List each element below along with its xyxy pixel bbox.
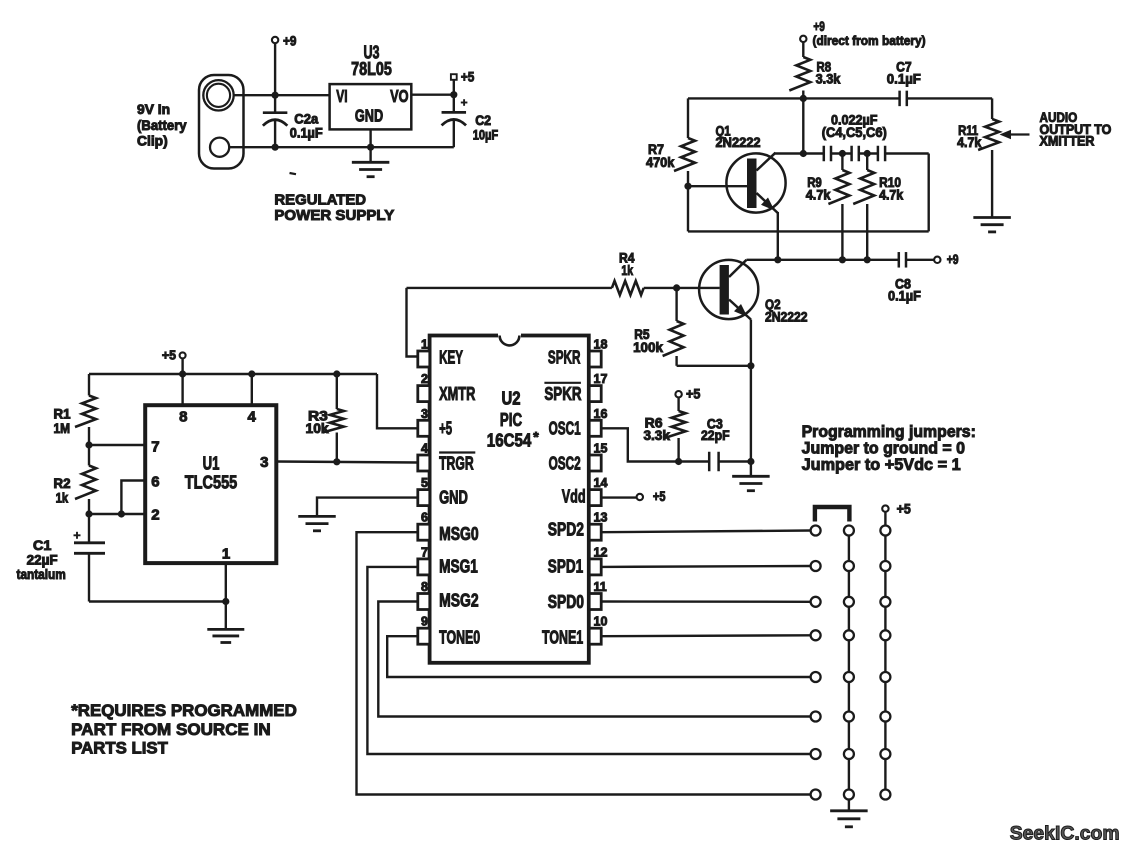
U3 pin labels VI VO GND (336, 86, 408, 125)
U1 pin 4 number (248, 408, 257, 425)
jumper pad row 2 ground (844, 561, 854, 571)
svg-text:C2: C2 (475, 113, 491, 128)
svg-text:12: 12 (594, 545, 608, 559)
label REGULATED POWER SUPPLY (274, 191, 394, 224)
U2 body (430, 333, 589, 663)
ground jumper column (830, 811, 868, 827)
wire feedback right edge (928, 154, 930, 232)
svg-text:VO: VO (390, 86, 408, 106)
U2 pin 7 box (418, 559, 430, 575)
U2 pin 14 box (589, 490, 601, 506)
label AUDIO OUTPUT TO XMITTER (1040, 110, 1112, 148)
svg-text:Jumper to +5Vdc = 1: Jumper to +5Vdc = 1 (802, 456, 961, 474)
wire SPD0 (601, 600, 810, 603)
svg-text:18: 18 (594, 338, 608, 352)
svg-text:10k: 10k (306, 421, 330, 436)
wire Q2 collector rail (747, 259, 900, 261)
U1 body (145, 405, 276, 563)
buffer section Q2 (407, 251, 959, 476)
svg-text:0.1µF: 0.1µF (887, 72, 921, 87)
U2 pin 3 box (418, 420, 430, 436)
resistor R1 (75, 374, 96, 445)
label R9 4.7k (806, 175, 831, 202)
svg-text:SPD1: SPD1 (548, 557, 583, 577)
node +5 rail pin4 (248, 370, 255, 377)
capacitor C2a (263, 95, 288, 147)
svg-text:MSG1: MSG1 (439, 557, 478, 577)
U2 pin 11 number (594, 580, 607, 594)
svg-text:9: 9 (421, 615, 428, 629)
label C8 0.1uF (888, 276, 921, 303)
U2 pin 16 label OSC1 (549, 418, 581, 438)
terminal +9 output (934, 252, 959, 267)
wire U2 pin5 GND (317, 498, 418, 517)
svg-text:2: 2 (151, 507, 159, 524)
U2 pin 6 label MSG0 (439, 524, 479, 544)
transistor Q1 2N2222 (688, 153, 786, 213)
wire rail to U2 pin 3 (377, 374, 418, 428)
wire U3 GND pin (369, 129, 371, 162)
U2 pin 12 number (594, 545, 608, 559)
ground Q2 emitter C3 (732, 476, 770, 490)
node Q2 base junction (673, 284, 680, 291)
svg-text:13: 13 (594, 511, 608, 525)
svg-text:OSC2: OSC2 (549, 454, 581, 474)
svg-text:6: 6 (421, 511, 428, 525)
U1 pin 6 number (151, 474, 159, 491)
wire C8 to +9 terminal (906, 259, 934, 261)
jumper pad row 4 +5 (880, 630, 890, 640)
svg-text:6: 6 (151, 474, 159, 491)
node Q1 emitter to rail (774, 256, 781, 263)
label R11 4.7k (957, 123, 982, 150)
U2 pin 18 box (589, 351, 601, 367)
jumper pad row 1 ground (844, 526, 854, 536)
svg-text:1M: 1M (54, 421, 71, 436)
svg-text:U2: U2 (502, 389, 521, 409)
U2 pin 16 number (594, 407, 608, 421)
svg-text:XMITTER: XMITTER (1040, 133, 1095, 148)
svg-text:R1: R1 (54, 406, 72, 421)
U2 pin 14 number (594, 476, 608, 490)
U2 pin 9 box (418, 628, 430, 644)
node R9 to rail (839, 256, 846, 263)
node R1 R2 pin7 junction (85, 441, 92, 448)
wire C5-C6 (859, 152, 878, 154)
wire Q1 collector rail (775, 152, 824, 154)
svg-text:17: 17 (594, 372, 608, 386)
label C7 0.1uF (887, 59, 921, 86)
jumper pad row 7 +5 (880, 749, 890, 759)
svg-text:0.1µF: 0.1µF (888, 289, 921, 304)
jumper pad row 6 ground (844, 712, 854, 722)
C1 plus sign (74, 532, 81, 539)
svg-text:1k: 1k (56, 491, 69, 506)
label 9V In (Battery Clip) (137, 102, 187, 149)
U2 pin 2 number (421, 372, 428, 386)
resistor R2 (75, 445, 96, 514)
wire MSG2 wrap (378, 602, 810, 717)
oscillator section Q1 (646, 19, 1111, 260)
oscillator RC section (601, 386, 769, 490)
wire MSG0 wrap (357, 532, 811, 794)
svg-text:16: 16 (594, 407, 608, 421)
svg-text:POWER SUPPLY: POWER SUPPLY (274, 207, 394, 224)
U2 pin 2 label XMTR (439, 384, 475, 404)
label R1 1M (54, 406, 72, 436)
U2 pin 4 number (421, 442, 428, 456)
wire +5 rail (89, 373, 377, 375)
label U3 78L05 (351, 43, 392, 80)
capacitor C4 (824, 146, 831, 162)
capacitor C7 (900, 91, 907, 107)
wire OSC1 to RC row (601, 428, 709, 461)
svg-text:5: 5 (421, 476, 428, 490)
jumper pad row 4 ground (844, 630, 854, 640)
U2 pin 15 number (594, 442, 608, 456)
wire U1 out to TRGR (276, 462, 418, 463)
wire ground column (848, 526, 850, 811)
U2 pin 1 number (421, 338, 428, 352)
U2 pin 9 label TONE0 (439, 628, 480, 648)
svg-text:+5: +5 (653, 489, 666, 504)
node C4 C5 junction (839, 150, 846, 157)
U2 pin 2 box (418, 386, 430, 402)
jumper pad row 2 signal (811, 561, 821, 571)
svg-text:REGULATED: REGULATED (274, 191, 366, 208)
wire Vdd to +5 (601, 496, 636, 498)
U2 pin 8 number (421, 580, 428, 594)
U2 pin 10 box (589, 628, 601, 644)
U2 pin 10 number (594, 615, 608, 629)
U2 pin 16 box (589, 420, 601, 436)
jumper pad row 8 signal (811, 790, 821, 800)
watermark SeekIC.com (1010, 822, 1120, 844)
U2 pin 7 label MSG1 (439, 557, 478, 577)
label R10 4.7k (879, 175, 904, 202)
U2 pin 15 box (589, 455, 601, 471)
label C2 10uF (473, 113, 499, 142)
U2 pin 18 label SPKR (548, 347, 581, 367)
wire pin 6 tie (121, 481, 145, 515)
node emitter R5 junction (747, 362, 754, 369)
svg-text:TONE0: TONE0 (439, 628, 480, 648)
wire Q2 emitter to ground (750, 320, 752, 476)
battery clip positive terminal (203, 80, 233, 110)
U1 pin 3 number (260, 454, 268, 471)
capacitor C8 (899, 252, 906, 267)
U1 pin 1 number (222, 546, 230, 563)
ground U1 (207, 629, 244, 642)
U1 pin 8 number (179, 408, 187, 425)
svg-text:15: 15 (594, 442, 608, 456)
svg-text:9V In: 9V In (137, 102, 170, 117)
svg-text:KEY: KEY (439, 347, 463, 367)
wire U3 VO to +5 node (411, 93, 454, 95)
svg-text:+9: +9 (947, 252, 959, 267)
svg-text:C1: C1 (33, 538, 52, 553)
svg-text:*REQUIRES PROGRAMMED: *REQUIRES PROGRAMMED (71, 701, 297, 720)
terminal +5 jumper column (882, 501, 911, 516)
svg-text:4.7k: 4.7k (879, 188, 904, 203)
svg-text:Programming jumpers:: Programming jumpers: (802, 423, 976, 441)
jumper pad row 1 signal (811, 526, 821, 536)
label R5 100k (633, 327, 663, 355)
wire SPD2 (601, 531, 810, 533)
jumper pad row 1 +5 (880, 526, 890, 536)
wire ground rail battery minus to C2 (229, 146, 454, 148)
wire R8 node down to caps (802, 98, 804, 153)
U2 pin 17 number (594, 372, 608, 386)
wire +9 to input rail (274, 43, 276, 95)
jumper pad row 3 ground (844, 597, 854, 607)
node R3 top (333, 370, 340, 377)
svg-text:+5: +5 (686, 386, 701, 401)
jumper pad row 7 ground (844, 749, 854, 759)
wire +5 to rail (181, 358, 183, 374)
svg-text:tantalum: tantalum (17, 567, 66, 582)
wire oscillator left edge top (687, 98, 689, 138)
svg-text:+5: +5 (897, 501, 912, 516)
node R3 bottom (333, 458, 340, 465)
svg-text:0.1µF: 0.1µF (290, 126, 323, 141)
capacitor C6 (878, 146, 885, 162)
jumper pad row 7 signal (811, 749, 821, 759)
terminal +5 square (451, 70, 475, 85)
U2 pin 7 number (421, 545, 428, 559)
label R2 1k (54, 476, 71, 506)
wire C7 to R11 (907, 98, 992, 119)
svg-text:XMTR: XMTR (439, 384, 475, 404)
svg-text:10µF: 10µF (473, 127, 499, 142)
label R3 10k (306, 408, 330, 436)
svg-text:4.7k: 4.7k (806, 188, 831, 203)
svg-text:GND: GND (439, 488, 468, 508)
U2 pin 5 label GND (439, 488, 468, 508)
resistor R10 (853, 154, 874, 260)
wire pin 8 drop (181, 374, 183, 405)
jumper pad row 4 signal (811, 630, 821, 640)
U2 pin 17 box (589, 386, 601, 402)
wire battery plus to U3 VI (234, 94, 330, 96)
svg-text:22µF: 22µF (27, 553, 58, 568)
U1 pin 2 number (151, 507, 159, 524)
svg-text:PARTS LIST: PARTS LIST (71, 739, 168, 758)
svg-text:1: 1 (222, 546, 230, 563)
wire pin 2 (89, 513, 145, 515)
jumper pad row 6 +5 (880, 712, 890, 722)
jumper pad row 8 +5 (880, 790, 890, 800)
svg-text:4.7k: 4.7k (957, 135, 982, 150)
U2 pin 15 label OSC2 (549, 454, 581, 474)
U2 pin 3 label +5 (439, 418, 452, 438)
jumper pad row 3 signal (811, 597, 821, 607)
jumper bracket installed (815, 507, 850, 522)
node pin2 pin6 tie (118, 510, 125, 517)
wire TONE1 (601, 634, 810, 637)
terminal +9 top left (272, 34, 297, 49)
label R7 470k (646, 142, 675, 170)
label Q2 2N2222 (765, 297, 808, 325)
label C1 22uF tantalum (17, 538, 66, 582)
svg-text:TRGR: TRGR (439, 454, 474, 474)
wire base node to feedback rail (687, 186, 689, 231)
resistor R9 (828, 154, 849, 260)
terminal +5 Vdd (637, 489, 666, 504)
label U2 PIC 16C54* (487, 389, 539, 451)
label Programming jumpers text (802, 423, 976, 474)
svg-text:2: 2 (421, 372, 428, 386)
node C2a bottom junction (272, 144, 279, 151)
U2 pin 4 label TRGR (439, 453, 475, 474)
svg-text:SPKR: SPKR (548, 347, 581, 367)
node Q1 base junction (684, 183, 691, 190)
U2 pin 17 label SPKR (544, 383, 581, 404)
U2 pin 18 number (594, 338, 608, 352)
svg-text:+5: +5 (162, 348, 176, 363)
svg-text:Clip): Clip) (137, 134, 168, 149)
microcontroller U2 PIC 16C54 (418, 333, 608, 663)
svg-text:R2: R2 (54, 476, 71, 491)
U2 pin 13 box (589, 524, 601, 540)
node caps row left junction (800, 150, 807, 157)
battery clip negative terminal (210, 138, 229, 157)
U2 pin 9 number (421, 615, 428, 629)
node R10 to rail (864, 256, 871, 263)
node C5 C6 junction (864, 150, 871, 157)
svg-text:10: 10 (594, 615, 608, 629)
wire R4 to KEY pin (407, 288, 418, 357)
note requires programmed part (71, 701, 297, 758)
U2 pin 1 label KEY (439, 347, 463, 367)
svg-text:SPKR: SPKR (544, 384, 581, 404)
U2 pin 12 label SPD1 (548, 557, 583, 577)
R11 wiper arrow (1000, 130, 1030, 139)
U2 pin 13 label SPD2 (548, 520, 584, 540)
capacitor C2 polarized (442, 95, 467, 148)
jumper pad row 2 +5 (880, 561, 890, 571)
label C2a 0.1uF (290, 111, 323, 140)
svg-text:PART FROM SOURCE IN: PART FROM SOURCE IN (71, 720, 271, 739)
svg-text:SPD0: SPD0 (548, 592, 584, 612)
resistor R8 (789, 57, 810, 98)
label 0.022uF (C4,C5,C6) (822, 113, 887, 140)
svg-text:14: 14 (594, 476, 608, 490)
wire feedback bottom rail (688, 230, 929, 232)
scan artifact dash (290, 173, 297, 174)
wire C3 to ground line (719, 460, 751, 462)
node VO junction (450, 91, 457, 98)
svg-text:3: 3 (421, 407, 428, 421)
ground R11 (973, 218, 1011, 232)
svg-text:+5: +5 (439, 418, 452, 438)
capacitor C5 (852, 146, 859, 162)
U2 pin 8 label MSG2 (439, 591, 479, 611)
svg-text:+5: +5 (461, 70, 475, 85)
svg-text:8: 8 (179, 408, 187, 425)
wire pin 4 drop (251, 374, 253, 405)
svg-text:MSG2: MSG2 (439, 591, 479, 611)
jumper pad row 3 +5 (880, 597, 890, 607)
svg-text:(C4,C5,C6): (C4,C5,C6) (822, 125, 887, 140)
U1 pin 7 number (151, 438, 159, 455)
label R6 3.3k (644, 416, 671, 443)
svg-text:7: 7 (421, 545, 428, 559)
svg-text:3: 3 (260, 454, 268, 471)
regulator U3 box (330, 84, 412, 129)
svg-text:8: 8 (421, 580, 428, 594)
svg-text:MSG0: MSG0 (439, 524, 479, 544)
wire SPD1 (601, 565, 810, 568)
svg-text:C2a: C2a (294, 111, 318, 126)
svg-text:4: 4 (421, 442, 428, 456)
svg-text:3.3k: 3.3k (644, 428, 671, 443)
svg-text:+9: +9 (283, 34, 297, 49)
svg-text:Vdd: Vdd (562, 487, 586, 507)
svg-text:PIC: PIC (500, 410, 522, 430)
wire R5 bottom to emitter (677, 365, 751, 367)
terminal +5 U1 (162, 348, 186, 363)
wire MSG1 wrap (367, 567, 810, 754)
wire U1 pin 1 drop (225, 563, 227, 629)
wire C6 to right edge (885, 152, 929, 154)
U2 pin 8 box (418, 594, 430, 610)
wire TONE0 wrap (387, 636, 810, 677)
U2 pin 6 number (421, 511, 428, 525)
resistor R3 (323, 374, 344, 462)
label R4 1k (619, 251, 635, 279)
U2 ground and message wires (298, 489, 810, 795)
U2 pin 6 box (418, 524, 430, 540)
wire +5 square to VO node (453, 80, 455, 95)
resistor R7 (674, 138, 695, 186)
svg-text:4: 4 (248, 408, 257, 425)
U2 pin 3 number (421, 407, 428, 421)
node U3 GND junction (367, 144, 374, 151)
svg-text:3.3k: 3.3k (816, 72, 841, 87)
svg-text:U1: U1 (203, 453, 220, 473)
resistor R11 pot (978, 119, 999, 218)
U2 pin 13 number (594, 511, 608, 525)
U2 pin 4 box (418, 455, 430, 471)
capacitor C1 tantalum (74, 514, 105, 602)
jumper pad row 5 +5 (880, 672, 890, 682)
node R6 bottom junction (675, 458, 682, 465)
transistor Q2 2N2222 (677, 260, 759, 320)
wire Q1 emitter down (777, 212, 779, 260)
node R2 C1 junction (85, 510, 92, 517)
svg-text:2N2222: 2N2222 (765, 309, 808, 324)
svg-text:11: 11 (594, 580, 607, 594)
programming jumper field (802, 423, 976, 827)
U2 pin 1 box (418, 351, 430, 367)
svg-text:GND: GND (355, 105, 383, 125)
jumper pad row 8 ground (844, 790, 854, 800)
U2 pin 5 box (418, 490, 430, 506)
C2 plus sign (461, 99, 468, 106)
svg-text:7: 7 (151, 438, 159, 455)
U2 pin 5 number (421, 476, 428, 490)
node battery plus junction (272, 92, 279, 99)
svg-text:TONE1: TONE1 (542, 628, 583, 648)
label Q1 2N2222 (716, 123, 761, 150)
resistor R4 (407, 281, 677, 295)
svg-text:TLC555: TLC555 (185, 472, 238, 492)
svg-text:+9: +9 (813, 19, 825, 34)
jumper pad row 5 ground (844, 672, 854, 682)
jumper pad row 5 signal (811, 672, 821, 682)
timer U1 TLC555 (17, 348, 418, 643)
